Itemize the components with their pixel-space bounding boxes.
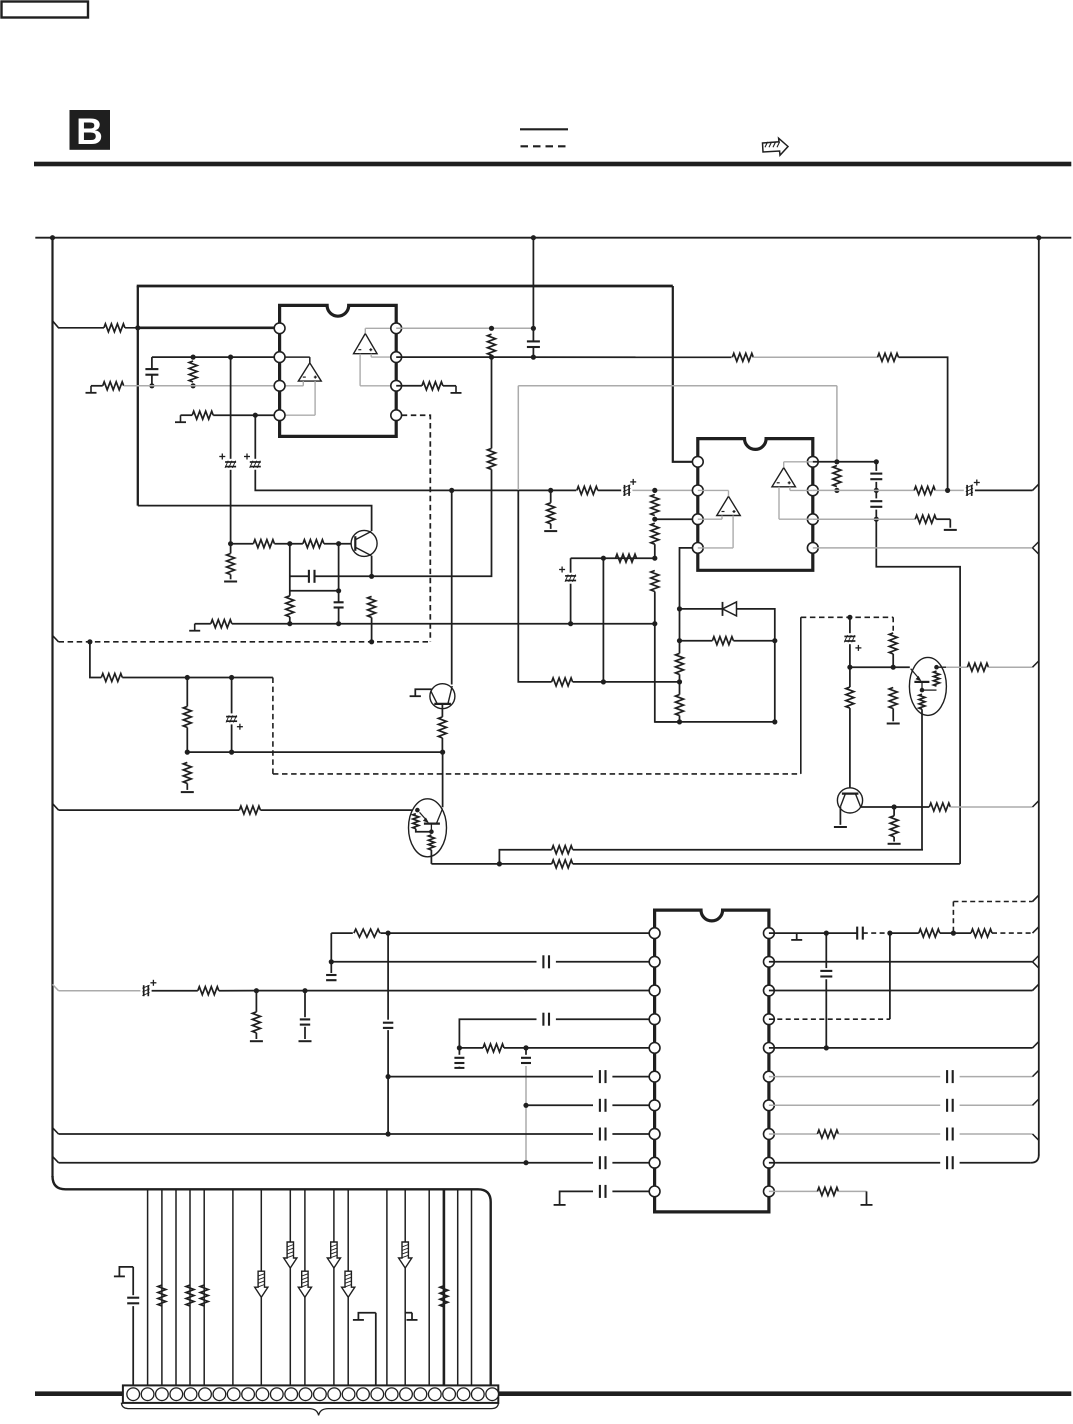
IC2 package body — [698, 439, 813, 571]
wire gray IC3 pin7R row — [769, 1104, 940, 1106]
wire gray U2b inv input to pin3R — [778, 487, 780, 519]
resistor R26 — [833, 466, 841, 487]
connector CN1 pin 5 — [184, 1388, 197, 1401]
resistor Rc — [158, 1285, 166, 1306]
node junction C1 bottom — [149, 383, 154, 388]
node junction — [229, 750, 234, 755]
IC1 package body — [280, 305, 397, 436]
IC3 pin 9 left — [649, 1157, 660, 1168]
node junction — [652, 488, 657, 493]
wire gray vertical + row y=385.7 (to IC2 pin1R) — [517, 386, 519, 490]
capacitor C3 electrolytic column x=255.3 — [254, 415, 256, 459]
capacitor C32 — [946, 1156, 948, 1169]
resistor R33 — [239, 806, 260, 814]
IC3 pin 6 right — [764, 1071, 775, 1082]
wire row y=752.1 — [187, 751, 442, 753]
IC3 pin 1 left — [649, 928, 660, 939]
resistor R9 — [422, 382, 443, 390]
Q3 base node — [415, 808, 420, 813]
wire thick to IC1 pin1L — [138, 326, 276, 329]
capacitor C23 — [599, 1099, 601, 1112]
wire IC3 pin5R row — [769, 1047, 1033, 1049]
wire gray IC3 pin6R row — [769, 1076, 940, 1078]
node junction — [336, 588, 341, 593]
capacitor C16 electrolytic — [143, 985, 145, 996]
wire frame right drop to IC2 pin1L — [673, 286, 692, 462]
wire IC3 pin4R dashed row — [769, 1018, 890, 1020]
node junction — [568, 621, 573, 626]
Q1 collector diag — [355, 531, 371, 539]
wire IC3 pin3R row — [769, 990, 1033, 992]
Q3 internal BE resistor — [428, 835, 434, 850]
connector CN1 pin 8 — [227, 1388, 240, 1401]
node junction — [185, 750, 190, 755]
wire gray IC1 pin1R row y=328.3 — [396, 327, 533, 329]
IC3 pin 2 right — [764, 956, 775, 967]
transistor Q1 — [351, 530, 377, 556]
wire connector drop — [232, 1189, 234, 1385]
resistor R39 — [967, 663, 988, 671]
node junction — [228, 355, 233, 360]
connector CN1 pin 15 — [328, 1388, 341, 1401]
resistor R40 Q5 emitter — [919, 694, 925, 709]
header label box top-left — [2, 2, 89, 18]
signal ground mark near x=405 — [405, 1312, 412, 1314]
IC3 pin 7 right — [764, 1100, 775, 1111]
wire IC3 pin10L row with signal ground — [560, 1191, 593, 1204]
wire jog from C10 node to right-side drop — [876, 519, 960, 864]
wire dashed shield path — [272, 678, 274, 774]
node junction R1/frame — [135, 325, 140, 330]
capacitor C12 electrolytic column x=231.6 — [231, 678, 233, 714]
wire IC2 pin3L row — [655, 518, 692, 520]
wire connector drop — [457, 1189, 459, 1385]
resistor R19 — [651, 523, 659, 544]
IC3 pin 7 left — [649, 1100, 660, 1111]
connector CN1 pin 23 — [443, 1388, 456, 1401]
connector CN1 pin 11 — [270, 1388, 283, 1401]
node junction — [489, 326, 494, 331]
node junction — [386, 931, 391, 936]
ground — [224, 581, 237, 583]
wire gray IC2 pin4R row to right bus — [813, 547, 1033, 549]
resistor R7 — [878, 353, 899, 361]
capacitor C31 — [946, 1128, 948, 1141]
connector CN1 pin 12 — [285, 1388, 298, 1401]
ground — [250, 1040, 263, 1042]
node junction — [834, 459, 839, 464]
node junction — [652, 621, 657, 626]
IC3 pin 5 right — [764, 1043, 775, 1054]
node junction — [601, 679, 606, 684]
wire col x=289.8 base feedback — [289, 544, 291, 596]
resistors R24 R25 column x=679.5 — [679, 609, 681, 654]
resistor R12 to ground below C2 — [230, 544, 232, 554]
op-amp U2b (IC2 right triangle) — [772, 468, 796, 487]
resistor R29 — [101, 674, 122, 682]
resistor R48 — [971, 929, 992, 937]
Q3 internal base resistor — [413, 814, 419, 829]
wire Q2 collector drop — [451, 490, 453, 684]
wire gray U1a noninv input — [314, 381, 316, 415]
wire row y=623.7 with signal ground — [194, 624, 196, 631]
wire partial drop with signal ground — [375, 1313, 377, 1386]
wire IC3 pin2L row — [331, 961, 536, 963]
IC2 pin 4 left — [692, 543, 703, 554]
IC1 pin 1 left — [274, 323, 285, 334]
connector CN1 pin 9 — [242, 1388, 255, 1401]
bottom rule right segment — [498, 1391, 1071, 1396]
signal flow arrow — [298, 1271, 311, 1297]
connector CN1 pin 21 — [414, 1388, 427, 1401]
node junction — [191, 355, 196, 360]
signal flow arrow — [284, 1242, 297, 1268]
IC1 pin 3 left — [274, 380, 285, 391]
node junction — [523, 1160, 528, 1165]
resistor R14 Q1 emitter to shield — [368, 596, 376, 617]
resistor R46 — [483, 1044, 504, 1052]
connector CN1 pin 20 — [400, 1388, 413, 1401]
capacitor C19 — [542, 1013, 544, 1026]
wire IC3 pin9L row from left bus — [53, 1156, 59, 1162]
wire bottom collector rail from left bus — [53, 1176, 491, 1385]
node junction — [951, 931, 956, 936]
connector CN1 pin 22 — [428, 1388, 441, 1401]
connector CN1 pin 13 — [299, 1388, 312, 1401]
connector CN1 pin 2 — [141, 1388, 154, 1401]
IC3 package body — [655, 910, 769, 1212]
wire connector drop — [189, 1189, 191, 1385]
resistor R6 — [732, 353, 753, 361]
wire connector drop — [161, 1189, 163, 1385]
wire — [91, 385, 103, 387]
resistor R43 — [354, 929, 380, 937]
op-amp U2a (IC2 left triangle) — [717, 496, 741, 515]
IC3 pin 3 right — [764, 985, 775, 996]
wire row y=681.9 from gray-box corner — [518, 490, 551, 682]
connector CN1 pin 4 — [170, 1388, 183, 1401]
resistor R18 — [651, 495, 659, 516]
wire down and left to Q1 emitter row — [372, 469, 492, 576]
node junction — [191, 383, 196, 388]
IC3 pin 1 right — [764, 928, 775, 939]
IC3 pin 2 left — [649, 956, 660, 967]
node junction — [531, 355, 536, 360]
node junction — [523, 1103, 528, 1108]
brace under connector — [121, 1403, 498, 1416]
node junction — [677, 679, 682, 684]
IC1 pin 3 right — [391, 380, 402, 391]
connector CN1 pin 19 — [385, 1388, 398, 1401]
wire down to row 721.9 — [655, 624, 680, 722]
wire Q1 base row y=543.7 — [231, 543, 254, 545]
resistor R3 — [103, 382, 124, 390]
Q2 base bar — [434, 703, 451, 705]
wire connector drop thick — [443, 1189, 446, 1385]
wire connector drop — [347, 1189, 349, 1385]
node junction — [386, 1131, 391, 1136]
node junction — [369, 574, 374, 579]
wire col x=89.9 down to R29 row — [90, 642, 101, 678]
wire row y=490.4 to IC2 input — [255, 470, 550, 491]
node junction — [386, 1074, 391, 1079]
Q1 base bar — [354, 536, 356, 551]
IC2 pin 3 right — [807, 514, 818, 525]
resistor R16 — [577, 486, 598, 494]
ground signal-gnd — [455, 386, 457, 393]
node junction — [847, 665, 852, 670]
wire col x=388.1 with C18 — [387, 933, 389, 1020]
node junction Q2 collector tap — [449, 488, 454, 493]
connector CN1 pin 7 — [213, 1388, 226, 1401]
capacitor C29 — [946, 1070, 948, 1083]
wire bend down to node — [899, 357, 948, 490]
capacitor C14 stub — [326, 974, 336, 976]
IC2 pin 2 right — [807, 485, 818, 496]
wire row y=721.9 — [655, 721, 775, 723]
resistor R31 — [183, 762, 191, 783]
IC3 pin 3 left — [649, 985, 660, 996]
capacitor C22 — [599, 1070, 601, 1083]
resistor Rc thick line — [440, 1286, 448, 1307]
resistor R32 Q2 emitter — [441, 704, 443, 717]
transistor Q4 — [837, 788, 862, 813]
signal flow arrow — [399, 1242, 412, 1268]
wire connector drop — [333, 1189, 335, 1385]
capacitor C15 — [542, 955, 544, 968]
ground signal-gnd left of R4 — [180, 415, 182, 422]
node junction — [457, 1045, 462, 1050]
wire Q1 emitter down — [371, 556, 373, 577]
node junction — [652, 517, 657, 522]
resistor R8 vertical below pin2R node — [491, 357, 493, 448]
wire IC3 pin1L row with R43 — [331, 932, 353, 934]
bottom rule left segment — [35, 1391, 123, 1396]
ground tick — [796, 933, 798, 939]
capacitor C2 electrolytic column x=230.6 — [230, 357, 232, 459]
capacitor C28 column x=826.3 — [825, 933, 827, 968]
wire gray IC3 pin8R row with R49 — [769, 1133, 818, 1135]
wire IC2 pin1R row — [813, 461, 877, 463]
node junction — [874, 488, 879, 493]
capacitor C13 electrolytic column x=849.9 — [849, 617, 851, 633]
resistor R1 — [104, 324, 125, 332]
wire connector drop — [428, 1189, 430, 1385]
IC3 pin 10 left — [649, 1186, 660, 1197]
node junction — [87, 639, 92, 644]
wire row y=558.2 with electrolytic C8 — [571, 557, 655, 559]
resistor R28 — [915, 515, 936, 523]
wire connector drop — [147, 1189, 149, 1385]
wire Q2 emitter to Q3 collector — [442, 752, 444, 807]
ground — [454, 1067, 464, 1069]
IC2 pin 3 left — [692, 514, 703, 525]
capacitor C11 electrolytic — [966, 485, 968, 496]
resistor R27 — [914, 486, 935, 494]
wire row y=863.9 — [431, 863, 499, 865]
node junction on dashed shield — [847, 615, 852, 620]
node junction — [329, 959, 334, 964]
wire connector drop — [304, 1189, 306, 1385]
wire gray drop — [525, 1066, 527, 1163]
capacitor C30 — [946, 1099, 948, 1112]
IC3 pin 4 right — [764, 1014, 775, 1025]
wire Q4 emitter to ground — [839, 807, 841, 825]
node junction top-left bus — [50, 235, 55, 240]
section marker B — [70, 110, 111, 150]
connector CN1 pin 10 — [256, 1388, 269, 1401]
resistor R17 to ground — [550, 490, 552, 502]
wire gray IC2 pin2R row — [813, 489, 914, 491]
legend dashed line — [521, 145, 567, 147]
wire col x=603.4 — [602, 558, 604, 682]
resistor R30 + R31 column x=187.3 — [186, 678, 188, 707]
wire IC1 pin2L row y=357.1 — [152, 356, 280, 358]
Q4 base bar — [842, 792, 859, 794]
node junction — [772, 638, 777, 643]
IC1 pin 2 right — [391, 352, 402, 363]
wire right bus x=1038.8 — [1038, 238, 1040, 1156]
wire connector drop — [203, 1189, 205, 1385]
capacitor C21 column x=526 — [525, 1048, 527, 1055]
resistor Rc — [186, 1285, 194, 1306]
ground — [299, 1040, 312, 1042]
connector CN1 pin 25 — [471, 1388, 484, 1401]
node junction top wire to IC1 cap drop — [531, 235, 536, 240]
connector CN1 pin 1 — [127, 1388, 140, 1401]
capacitor C1 column x=151.9 — [151, 357, 153, 368]
capacitor C24 — [599, 1128, 601, 1141]
node junction — [489, 355, 494, 360]
wire connector drop — [175, 1189, 177, 1385]
wire — [551, 489, 577, 491]
wire connector drop — [471, 1189, 473, 1385]
node junction — [440, 750, 445, 755]
resistor R47 — [919, 929, 940, 937]
connector CN1 pin 17 — [357, 1388, 370, 1401]
resistor R36 column x=893.2 from dashed corner — [892, 617, 894, 633]
ground bar — [554, 1204, 566, 1206]
resistor R4 — [192, 411, 213, 419]
wire IC1 pin4L row — [213, 414, 279, 416]
node junction — [677, 606, 682, 611]
wire IC3 pin7L row — [526, 1104, 593, 1106]
resistor R11 — [303, 540, 324, 548]
Q3 emitter node — [429, 829, 434, 834]
capacitor C7 electrolytic — [624, 485, 626, 496]
ground — [181, 791, 194, 793]
connector CN1 pin 14 — [314, 1388, 327, 1401]
resistor R10 — [253, 540, 274, 548]
IC1 pin 2 left — [274, 352, 285, 363]
svg-text:B: B — [76, 111, 103, 152]
node junction — [336, 621, 341, 626]
wire frame left edge x=137.8 — [137, 286, 139, 506]
Q3 collector diag — [436, 809, 442, 824]
wire Q3 emitter out — [430, 850, 432, 864]
IC2 pin 1 left — [692, 456, 703, 467]
node junction — [892, 804, 897, 809]
node junction — [287, 621, 292, 626]
node junction — [302, 988, 307, 993]
node junction — [945, 488, 950, 493]
wire top supply rail y=238 — [35, 237, 1071, 239]
resistor R15 — [211, 620, 232, 628]
wire Q5 emitter down to row 849.7 — [921, 709, 923, 850]
wire Q3 base row from left bus — [53, 804, 59, 811]
node junction — [336, 541, 341, 546]
resistor R34 — [552, 860, 573, 868]
node junction — [548, 488, 553, 493]
node junction — [824, 1045, 829, 1050]
resistor R5 vertical — [488, 334, 496, 355]
resistor R21 — [616, 554, 637, 562]
connector CN1 pin 3 — [156, 1388, 169, 1401]
IC1 pin 1 right — [391, 323, 402, 334]
wire connector drop — [404, 1189, 406, 1385]
IC3 pin 6 left — [649, 1071, 660, 1082]
resistor R38 column x=849.9 to Q4 base — [849, 667, 851, 687]
wire IC1 pin2R row y=357.1 — [396, 356, 731, 358]
ground — [944, 529, 957, 531]
capacitor C9 — [875, 462, 877, 471]
wire left bus x=52.5 — [51, 238, 53, 1177]
signal flow arrow — [255, 1271, 268, 1297]
node junction — [254, 988, 259, 993]
capacitor C10 — [875, 490, 877, 498]
IC3 pin 9 right — [764, 1157, 775, 1168]
connector CN1 pin 26 — [486, 1388, 499, 1401]
connector CN1 pin 18 — [371, 1388, 384, 1401]
resistor Rc — [200, 1285, 208, 1306]
wire frame bottom edge y=505.6 — [138, 506, 372, 531]
resistor R35 — [552, 846, 573, 854]
wire frame top edge y=286 — [137, 285, 673, 288]
wire IC3 pin9R row (right bus terminates here) — [769, 1162, 940, 1164]
node junction — [824, 931, 829, 936]
node junction — [834, 488, 839, 493]
connector CN1 pin 24 — [457, 1388, 470, 1401]
wire connector drop — [260, 1189, 262, 1385]
signal flow arrow — [342, 1271, 355, 1297]
IC2 pin 1 right — [807, 456, 818, 467]
wire dashed — [402, 415, 431, 642]
IC2 pin 2 left — [692, 485, 703, 496]
wire gray — [753, 356, 877, 358]
Q3 bar — [424, 822, 440, 824]
node junction top-right bus — [1036, 235, 1041, 240]
resistor R45 to ground — [255, 991, 257, 1012]
connector CN1 body — [123, 1385, 498, 1403]
op-amp U1b (IC1 right triangle) — [354, 334, 378, 354]
capacitor C33 column x=133.2 with signal mark — [119, 1267, 133, 1276]
wire gray U1a inv input — [302, 381, 304, 386]
resistor R50 — [817, 1187, 838, 1195]
header rule — [34, 162, 1071, 167]
capacitor C18 — [383, 1022, 393, 1024]
wire IC3 pin8L row from left bus — [53, 1128, 59, 1134]
node junction — [185, 675, 190, 680]
transistor Q3 (digital, with built-in resistors) — [409, 799, 447, 857]
wire dashed box top-right — [952, 902, 954, 934]
ground signal mark Q2 base — [415, 689, 431, 696]
wire row y=590.8 — [290, 590, 339, 592]
node junction — [891, 665, 896, 670]
wire col x=331.3 — [330, 933, 332, 962]
wire row y=849.7 — [499, 850, 551, 864]
node junction — [497, 861, 502, 866]
node junction — [887, 931, 892, 936]
